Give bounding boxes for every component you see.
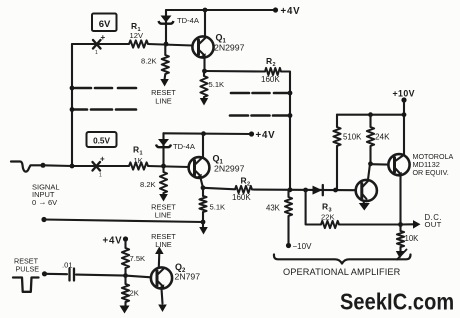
svg-text:6V: 6V xyxy=(48,198,57,207)
svg-text:→: → xyxy=(39,198,47,207)
svg-text:+4V: +4V xyxy=(281,6,301,17)
svg-text:2K: 2K xyxy=(130,289,139,298)
svg-text:8.2K: 8.2K xyxy=(141,57,157,66)
svg-text:Q: Q xyxy=(175,262,182,272)
svg-text:5.1K: 5.1K xyxy=(209,80,225,89)
svg-text:R: R xyxy=(131,21,137,31)
svg-text:10K: 10K xyxy=(405,234,420,243)
svg-text:5.1K: 5.1K xyxy=(210,203,226,212)
svg-text:2N2997: 2N2997 xyxy=(214,43,245,53)
svg-text:LINE: LINE xyxy=(155,211,172,220)
svg-text:Q: Q xyxy=(216,33,223,43)
svg-text:SeekIC.com: SeekIC.com xyxy=(340,288,454,315)
svg-text:LINE: LINE xyxy=(155,97,172,106)
svg-text:2: 2 xyxy=(247,182,250,188)
svg-text:1: 1 xyxy=(95,50,98,56)
svg-text:7.5K: 7.5K xyxy=(130,254,146,263)
svg-text:R: R xyxy=(322,202,328,212)
svg-text:LINE: LINE xyxy=(155,240,172,249)
svg-text:MD1132: MD1132 xyxy=(413,160,440,169)
svg-text:8.2K: 8.2K xyxy=(140,180,156,189)
svg-text:R: R xyxy=(241,176,247,186)
svg-text:TD-4A: TD-4A xyxy=(177,16,200,25)
svg-text:OUT: OUT xyxy=(425,220,442,229)
svg-text:R: R xyxy=(266,56,272,66)
svg-text:160K: 160K xyxy=(232,193,251,202)
svg-text:+10V: +10V xyxy=(393,89,415,99)
svg-text:.01: .01 xyxy=(62,261,73,270)
svg-text:2N2997: 2N2997 xyxy=(214,164,245,174)
svg-text:−10V: −10V xyxy=(293,242,313,251)
svg-text:510K: 510K xyxy=(343,133,362,142)
svg-text:0: 0 xyxy=(32,198,36,207)
svg-text:160K: 160K xyxy=(261,75,280,84)
svg-text:43K: 43K xyxy=(266,204,281,213)
svg-text:+4V: +4V xyxy=(103,236,123,247)
svg-text:+4V: +4V xyxy=(256,130,276,141)
svg-text:1: 1 xyxy=(99,173,102,179)
svg-text:+: + xyxy=(100,155,105,164)
svg-text:0.5V: 0.5V xyxy=(93,137,110,146)
svg-text:OPERATIONAL AMPLIFIER: OPERATIONAL AMPLIFIER xyxy=(283,267,401,277)
svg-text:22K: 22K xyxy=(321,213,335,222)
svg-text:R: R xyxy=(133,145,139,155)
svg-text:Q: Q xyxy=(213,154,220,164)
svg-text:PULSE: PULSE xyxy=(16,265,40,274)
svg-text:OR EQUIV.: OR EQUIV. xyxy=(413,169,449,177)
svg-text:2N797: 2N797 xyxy=(175,272,201,282)
svg-text:2: 2 xyxy=(273,62,276,68)
svg-text:12V: 12V xyxy=(130,31,144,40)
svg-text:1K: 1K xyxy=(134,156,143,165)
svg-text:+: + xyxy=(101,33,106,42)
svg-text:TD-4A: TD-4A xyxy=(173,142,196,151)
svg-text:24K: 24K xyxy=(375,133,390,142)
svg-text:6V: 6V xyxy=(99,19,111,30)
